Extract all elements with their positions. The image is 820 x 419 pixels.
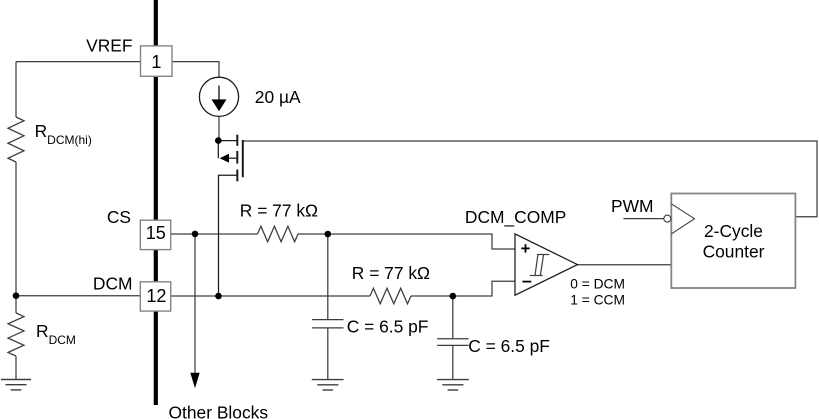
U2 clock triangle xyxy=(671,204,694,234)
svg-text:R = 77 kΩ: R = 77 kΩ xyxy=(352,263,430,283)
wire comparator output xyxy=(578,264,672,266)
ground C1 xyxy=(312,380,344,390)
wire other blocks drop xyxy=(194,234,196,373)
svg-text:VREF: VREF xyxy=(86,36,132,56)
Q1 source wire xyxy=(219,175,238,296)
Q1 body wire xyxy=(229,157,238,159)
wire left rail middle xyxy=(15,162,17,296)
Q1 gate bar xyxy=(242,140,244,177)
wire DCM left xyxy=(16,295,140,297)
svg-text:12: 12 xyxy=(146,286,166,306)
svg-text:DCM: DCM xyxy=(93,273,133,293)
svg-text:C = 6.5 pF: C = 6.5 pF xyxy=(468,336,550,356)
wire counter feedback to gate xyxy=(243,141,817,217)
resistor R2 77k xyxy=(370,288,411,304)
resistor R_DCM(hi) xyxy=(8,117,24,162)
svg-text:R = 77 kΩ: R = 77 kΩ xyxy=(240,201,318,221)
svg-text:C = 6.5 pF: C = 6.5 pF xyxy=(347,317,429,337)
svg-text:0 = DCM: 0 = DCM xyxy=(570,277,625,292)
node CS dot xyxy=(192,231,199,238)
U2 clock bubble xyxy=(664,215,671,222)
svg-text:15: 15 xyxy=(146,223,166,243)
svg-text:CS: CS xyxy=(107,207,131,227)
svg-text:1 = CCM: 1 = CCM xyxy=(570,293,625,308)
resistor R_DCM xyxy=(8,313,24,356)
wire left rail to R_DCM xyxy=(15,296,17,313)
wire current source to node A xyxy=(218,116,220,140)
wire DCM pin to R2 xyxy=(171,295,370,297)
wire VREF pin to current source xyxy=(172,62,219,78)
svg-text:Other Blocks: Other Blocks xyxy=(169,403,269,419)
U1 hysteresis symbol xyxy=(530,255,550,276)
Q1 drain wire xyxy=(218,140,237,142)
resistor R1 77k xyxy=(258,226,299,242)
wire R_DCM to ground xyxy=(15,356,17,380)
U1 plus sign xyxy=(521,244,529,252)
svg-text:1: 1 xyxy=(151,52,161,72)
pin 12 box xyxy=(140,282,170,311)
wire R1 to comparator plus xyxy=(298,234,515,249)
transistor Q1 xyxy=(218,135,243,296)
node A dot xyxy=(215,137,222,144)
node DCM dot xyxy=(215,293,222,300)
capacitor C1 plates xyxy=(312,319,344,321)
svg-text:DCM_COMP: DCM_COMP xyxy=(465,207,566,227)
wire R2 to comparator minus xyxy=(411,281,515,296)
wire left rail upper xyxy=(15,62,17,117)
ground left xyxy=(1,380,31,390)
wire CS pin to R1 xyxy=(171,233,258,235)
counter box U2 xyxy=(671,194,795,289)
wire PWM input xyxy=(623,218,663,220)
current source I1 xyxy=(199,77,238,116)
pin 1 box xyxy=(141,46,173,76)
Q1 body arrow xyxy=(220,154,229,163)
Q1 body stub xyxy=(217,141,219,159)
pin 15 box xyxy=(140,220,170,249)
node DCM-left dot xyxy=(13,292,20,299)
svg-text:PWM: PWM xyxy=(611,196,654,216)
ground C2 xyxy=(437,380,469,390)
wire node B to C1 xyxy=(327,234,329,319)
capacitor C2 plates xyxy=(437,338,469,340)
wire C1 to ground xyxy=(327,328,329,380)
svg-text:20 µA: 20 µA xyxy=(255,87,301,107)
wire VREF left rail top xyxy=(16,61,141,63)
node B dot xyxy=(325,231,332,238)
svg-text:2-Cycle: 2-Cycle xyxy=(704,221,763,241)
arrow other blocks xyxy=(190,373,199,388)
wire C2 to ground xyxy=(452,345,454,379)
node C dot xyxy=(450,293,457,300)
U1 minus sign xyxy=(523,281,532,283)
op-amp U1 DCM_COMP xyxy=(515,234,578,295)
IC boundary thick line xyxy=(154,0,158,405)
Q1 channel bar segments xyxy=(236,135,238,146)
wire node C to C2 xyxy=(452,296,454,339)
svg-text:Counter: Counter xyxy=(703,242,765,262)
